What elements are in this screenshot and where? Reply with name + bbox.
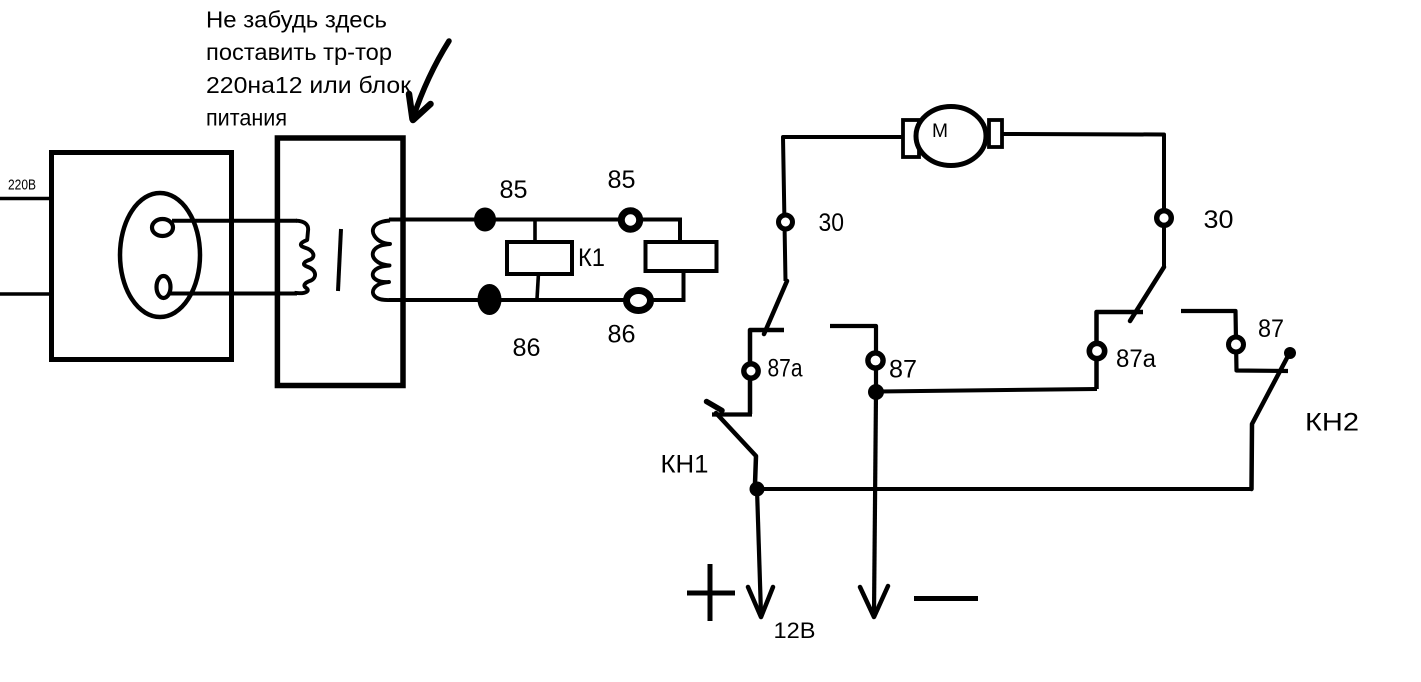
- wire mains input bottom: [0, 292, 52, 296]
- motor M brush left: [903, 120, 919, 157]
- wire 87a left fixed contact: [750, 330, 784, 414]
- wire net 85 secondary top: [389, 220, 680, 244]
- annotation arrow: [409, 41, 449, 120]
- label 87а left: [768, 355, 803, 383]
- label КН2: [1305, 409, 1359, 437]
- junction dot 87 middle: [868, 384, 884, 400]
- wire 87 right fixed contact: [1181, 311, 1288, 371]
- label 12В: [774, 618, 816, 643]
- terminal 87 right ring: [1229, 337, 1244, 352]
- svg-text:М: М: [932, 121, 948, 142]
- supply arrow negative: [860, 392, 888, 617]
- wire pin top to primary: [172, 219, 297, 223]
- motor M brush right: [989, 120, 1002, 147]
- plus sign: [687, 564, 735, 621]
- pushbutton КН2 pivot dot: [1284, 347, 1296, 359]
- wire positive rail: [757, 487, 1252, 491]
- contact 30 right ring: [1157, 211, 1172, 226]
- svg-text:87: 87: [1258, 315, 1284, 343]
- svg-text:85: 85: [608, 166, 636, 194]
- wire 87a right fixed contact: [1097, 312, 1144, 389]
- label 85 right: [608, 166, 636, 194]
- label 30 left: [819, 209, 845, 237]
- socket XS1 box: [52, 153, 232, 360]
- contact 30 left ring: [779, 215, 793, 229]
- terminal 87a right ring: [1089, 343, 1104, 358]
- motor M label: [932, 121, 948, 142]
- transformer T1 secondary winding: [373, 221, 391, 301]
- terminal 87 middle ring: [868, 353, 883, 368]
- terminal 85 ring: [621, 211, 639, 229]
- svg-text:30: 30: [1204, 206, 1234, 234]
- svg-text:87а: 87а: [768, 355, 803, 383]
- pushbutton КН1 fixed stub: [712, 412, 752, 416]
- socket XS1 pin top: [152, 219, 173, 236]
- label 87 middle: [889, 356, 917, 384]
- svg-text:85: 85: [500, 176, 528, 204]
- label 86 left: [513, 334, 541, 362]
- wire motor right to contact 30: [1002, 134, 1164, 268]
- svg-text:К1: К1: [578, 244, 605, 272]
- terminal 86 solder dot: [478, 284, 502, 315]
- svg-text:Не забудь здесь: Не забудь здесь: [206, 7, 387, 33]
- label 87а right: [1116, 345, 1156, 373]
- svg-text:КН1: КН1: [661, 451, 709, 479]
- svg-text:12В: 12В: [774, 618, 816, 643]
- svg-text:87а: 87а: [1116, 345, 1156, 373]
- label КН1: [661, 451, 709, 479]
- svg-text:поставить тр-тор: поставить тр-тор: [206, 39, 392, 65]
- junction dot positive rail: [750, 482, 765, 497]
- transformer T1 box: [277, 138, 403, 386]
- label 85 left: [500, 176, 528, 204]
- relay K1 coil: [507, 242, 572, 274]
- relay arm right 30 to 87a: [1130, 267, 1164, 321]
- wire motor left to contact 30: [783, 137, 904, 281]
- wire relay K1 top lead: [533, 220, 537, 243]
- pushbutton КН2 arm: [1252, 356, 1289, 489]
- note annotation text: [206, 7, 412, 131]
- svg-text:30: 30: [819, 209, 845, 237]
- label 220В: [8, 178, 36, 194]
- wire pin bottom to primary: [170, 292, 297, 296]
- terminal 87a left ring: [744, 364, 758, 378]
- svg-text:КН2: КН2: [1305, 409, 1359, 437]
- terminal 86 ring: [627, 291, 651, 311]
- terminal 85 solder dot: [474, 208, 496, 232]
- svg-text:87: 87: [889, 356, 917, 384]
- label К1: [578, 244, 605, 272]
- transformer T1 primary winding: [295, 221, 316, 294]
- wire 87 middle fixed contact: [830, 326, 876, 392]
- relay K1 contact block: [646, 242, 717, 271]
- wire relay K1 bottom lead: [537, 273, 539, 299]
- svg-text:220на12 или блок: 220на12 или блок: [206, 72, 412, 98]
- relay arm left 30 to 87a: [764, 281, 787, 334]
- pushbutton КН1 actuator nub: [707, 402, 723, 411]
- label 30 right: [1204, 206, 1234, 234]
- wire mains input top: [0, 197, 52, 201]
- socket XS1 face ellipse: [120, 193, 200, 317]
- supply arrow positive: [748, 489, 773, 617]
- label 86 right: [608, 321, 636, 349]
- pushbutton КН1 arm: [716, 413, 756, 484]
- svg-text:86: 86: [608, 321, 636, 349]
- minus sign: [914, 596, 978, 601]
- socket XS1 pin bottom: [157, 276, 171, 298]
- svg-text:220В: 220В: [8, 178, 36, 194]
- svg-text:86: 86: [513, 334, 541, 362]
- label 87 right: [1258, 315, 1284, 343]
- wire negative rail to 87a right: [876, 389, 1097, 392]
- svg-text:питания: питания: [206, 105, 287, 131]
- wire net 86 secondary bottom: [389, 272, 684, 300]
- transformer T1 core: [338, 229, 341, 291]
- motor M body: [916, 107, 986, 166]
